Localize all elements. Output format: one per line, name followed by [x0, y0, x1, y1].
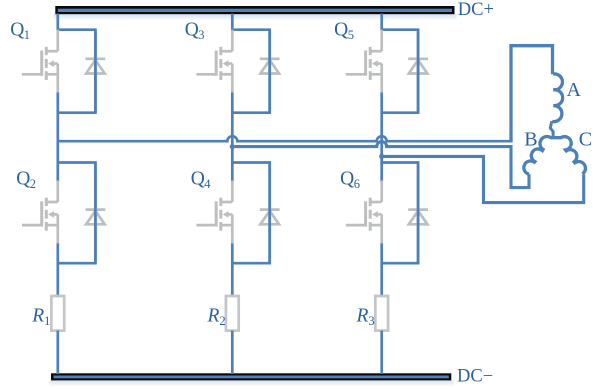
node: phase B junction on leg 2 [230, 144, 235, 149]
wire: diode loop rectangle around Q3 [232, 30, 269, 113]
resistor R2 [226, 296, 239, 331]
wire: phase A line from leg 1 midpoint (hops over legs 2 and 3) [57, 136, 513, 141]
inductor winding C [553, 137, 585, 174]
wire: leg 3 from Q6 source to resistor R3 [380, 243, 383, 296]
wire: diode loop rectangle around Q1 [58, 30, 96, 113]
svg-text:R3: R3 [356, 305, 375, 328]
svg-text:B: B [524, 128, 537, 150]
wire: redraw blue over diodes column leg 3 [417, 30, 420, 264]
DC- bus bar [50, 373, 454, 387]
resistor R1 [51, 296, 64, 331]
wire: winding A to star point [550, 121, 553, 138]
diode D5 (freewheeling, on Q5 loop) [408, 59, 428, 74]
wire: diode loop rectangle around Q5 [382, 30, 418, 113]
wire: leg 5 source down to phase node [380, 93, 383, 183]
diode D4 (freewheeling, on Q4 loop) [260, 210, 280, 225]
wire: phase A riser to winding A [511, 46, 553, 143]
wire: redraw blue over diodes column leg 1 [94, 30, 97, 264]
node: phase C junction on leg 3 [379, 154, 384, 159]
wire: leg 1 source down to phase node [56, 93, 59, 183]
svg-text:DC+: DC+ [458, 0, 494, 20]
svg-text:A: A [567, 79, 582, 101]
svg-text:Q1: Q1 [10, 19, 30, 42]
transistor Q5 (N-MOSFET) [346, 30, 382, 93]
wire: phase B line from leg 2 midpoint (hops over leg 3), down and to winding B [232, 142, 529, 188]
wire: redraw blue over diodes column leg 2 [268, 30, 271, 264]
svg-text:R2: R2 [207, 305, 226, 328]
wire: leg 5 from DC+ bus to half-bridge [380, 14, 383, 31]
diode D6 (freewheeling, on Q6 loop) [408, 210, 428, 225]
wire: leg 1 from Q2 source to resistor R1 [56, 243, 59, 296]
wire: leg 2 from resistor R2 to DC- bus [231, 331, 234, 374]
svg-text:Q3: Q3 [185, 19, 205, 42]
inductor winding A [552, 74, 562, 122]
DC+ bus bar [54, 6, 457, 22]
inductor winding B [524, 136, 553, 174]
wire: diode loop rectangle around Q4 [232, 163, 269, 264]
wire: leg 3 source down to phase node [231, 93, 234, 183]
svg-text:Q6: Q6 [340, 169, 360, 192]
wire: leg 1 from DC+ bus to half-bridge [56, 14, 59, 31]
svg-text:DC−: DC− [457, 367, 493, 387]
wire: phase C line from leg 3 midpoint, down and around to winding C [382, 156, 584, 202]
svg-text:R1: R1 [31, 305, 50, 328]
transistor Q1 (N-MOSFET) [22, 30, 58, 93]
wire: diode loop rectangle around Q6 [382, 163, 418, 264]
wire: leg 2 from Q4 source to resistor R2 [231, 243, 234, 296]
diode D1 (freewheeling, on Q1 loop) [86, 59, 106, 74]
wire: leg 1 from resistor R1 to DC- bus [56, 331, 59, 374]
transistor Q2 (N-MOSFET) [22, 181, 58, 244]
wire: diode loop rectangle around Q2 [58, 163, 96, 264]
transistor Q6 (N-MOSFET) [346, 181, 382, 244]
wire: leg 3 from DC+ bus to half-bridge [231, 14, 234, 31]
svg-text:Q2: Q2 [16, 169, 36, 192]
diode D2 (freewheeling, on Q2 loop) [86, 210, 106, 225]
resistor R3 [375, 296, 388, 331]
wire: leg 3 from resistor R3 to DC- bus [380, 331, 383, 374]
transistor Q4 (N-MOSFET) [196, 181, 232, 244]
svg-text:Q5: Q5 [334, 19, 354, 42]
svg-text:C: C [579, 128, 592, 150]
svg-text:Q4: Q4 [191, 169, 212, 192]
diode D3 (freewheeling, on Q3 loop) [260, 59, 280, 74]
transistor Q3 (N-MOSFET) [196, 30, 232, 93]
